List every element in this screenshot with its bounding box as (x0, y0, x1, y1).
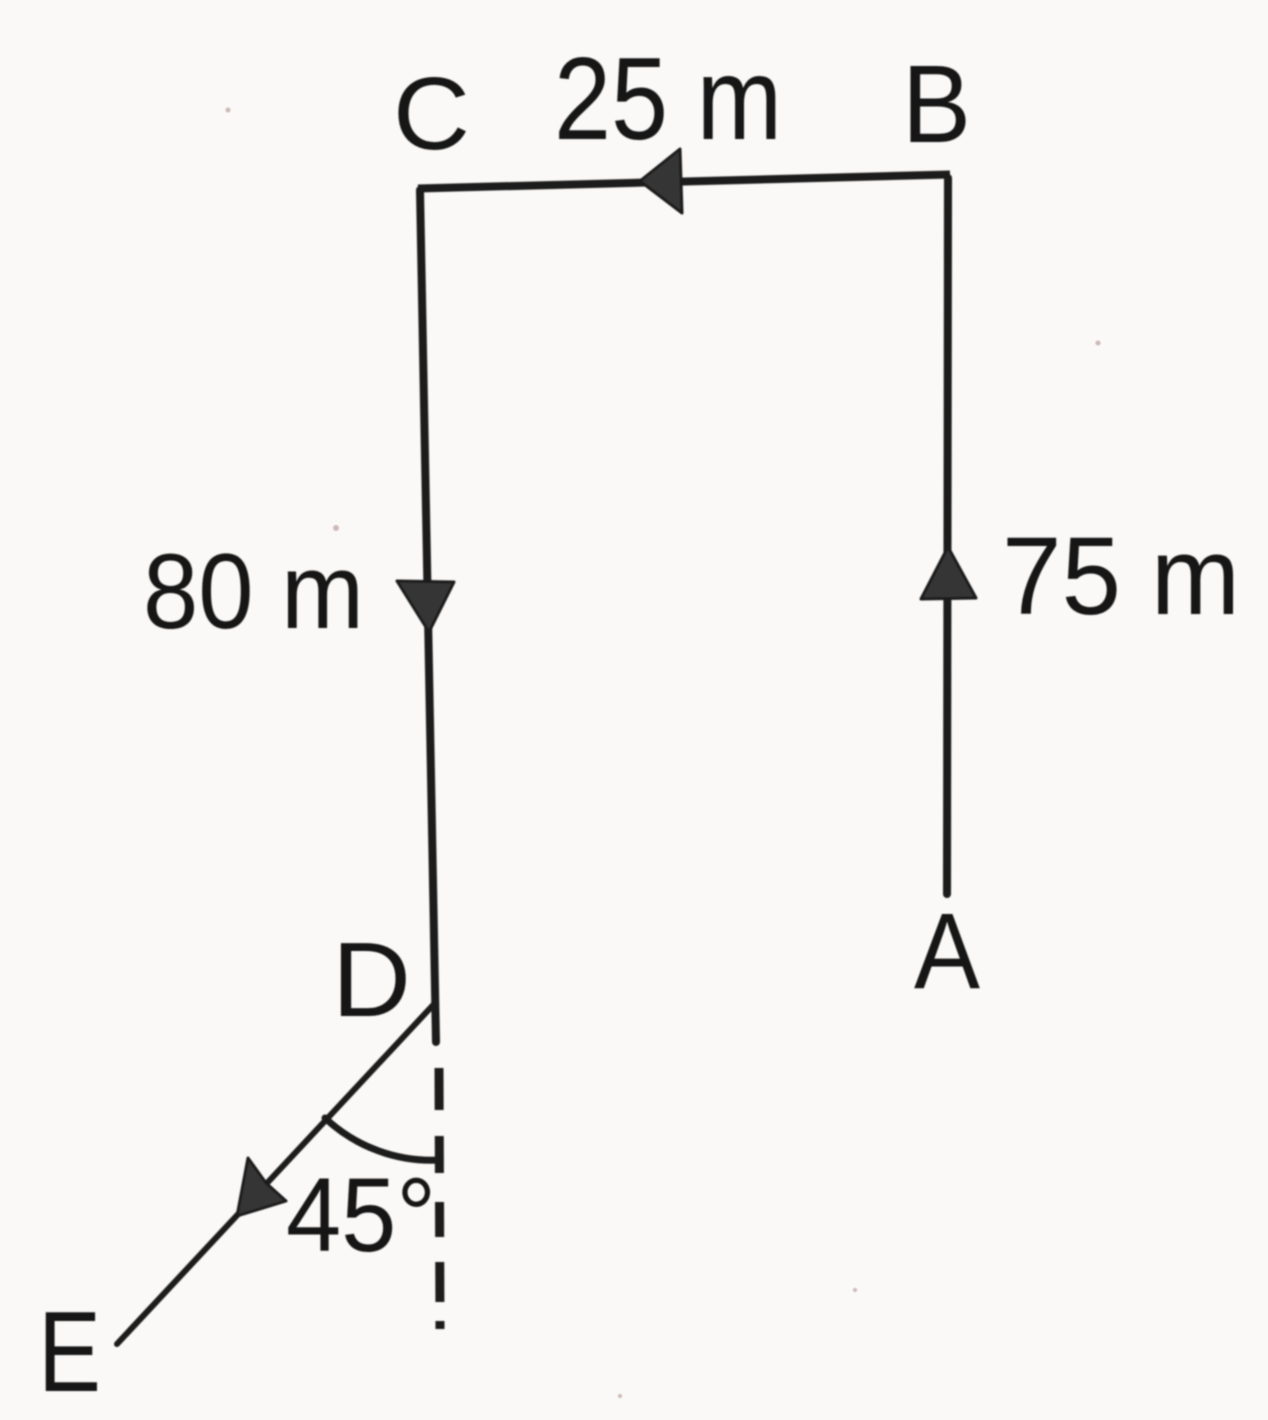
svg-text:75 m: 75 m (1002, 515, 1240, 638)
svg-text:C: C (393, 56, 470, 171)
svg-text:B: B (902, 43, 971, 166)
arrowhead on B-C pointing left (640, 149, 682, 213)
wire C-D (left vertical segment) (420, 190, 436, 1042)
svg-text:45°: 45° (286, 1157, 436, 1274)
wire B-C (top horizontal segment) (418, 175, 950, 189)
arrowhead on A-B pointing up (921, 547, 976, 599)
arrowhead on D-E pointing toward E (237, 1158, 286, 1216)
svg-text:D: D (332, 921, 411, 1039)
arrowhead on C-D pointing down (397, 581, 454, 632)
svg-text:80 m: 80 m (143, 531, 364, 651)
angle arc at D (325, 1118, 440, 1160)
wire D-E (diagonal segment at 45 degrees) (117, 1003, 435, 1344)
svg-text:A: A (914, 890, 980, 1011)
wire A-B (right vertical segment) (947, 178, 948, 894)
svg-text:25 m: 25 m (554, 33, 782, 164)
dashed reference line below D (439, 1068, 440, 1330)
svg-text:E: E (38, 1289, 101, 1416)
